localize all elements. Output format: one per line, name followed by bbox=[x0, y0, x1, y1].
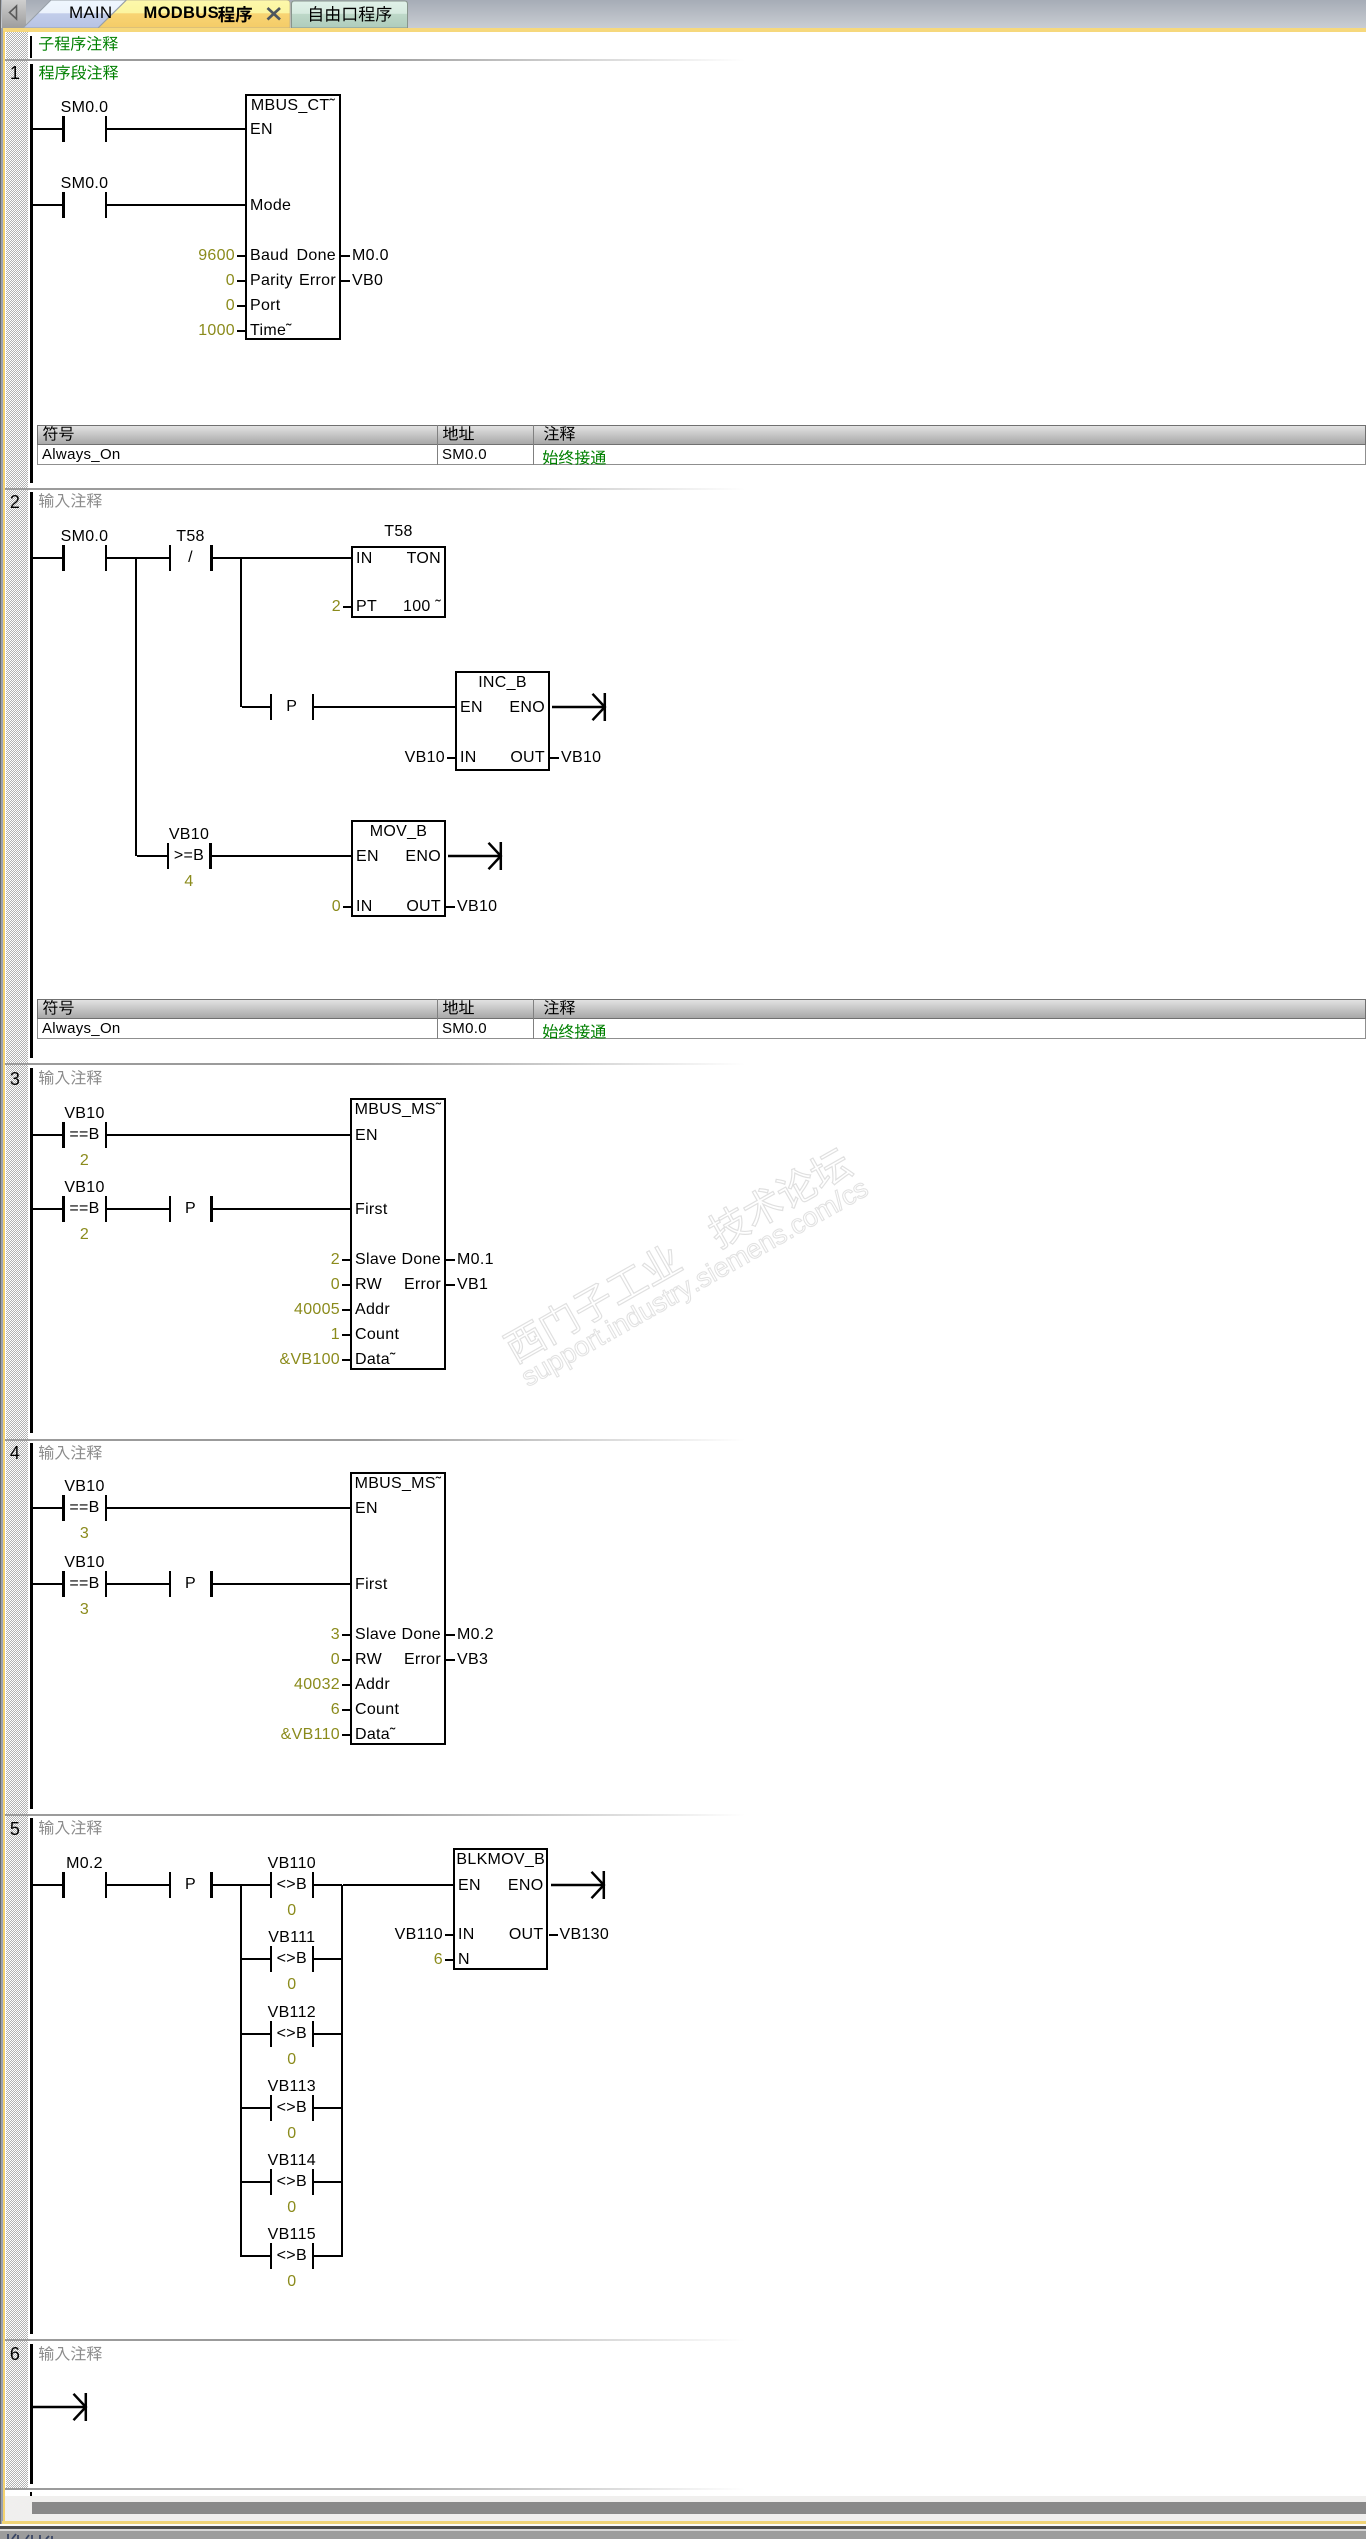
pin Addr bbox=[355, 1677, 390, 1693]
pin 100 ˜ bbox=[321, 599, 441, 615]
wire bbox=[314, 2181, 342, 2183]
contact VB10 ==B 2 (First) bbox=[0, 0, 1, 1]
wire bbox=[33, 2406, 34, 2408]
tab 自由口程序 label bbox=[310, 6, 393, 24]
network number 6 bbox=[4, 2346, 26, 2362]
network 5 left rail bbox=[30, 1818, 33, 2333]
contact P positive edge bbox=[0, 0, 1, 1]
wire bbox=[107, 1208, 169, 1210]
network 1 left rail bbox=[30, 64, 33, 483]
pin First bbox=[355, 1202, 388, 1218]
contact VB115 <>B 0 bbox=[0, 0, 1, 1]
wire bbox=[33, 557, 63, 559]
pin N bbox=[458, 1952, 470, 1968]
pin Port bbox=[250, 298, 281, 314]
close button bbox=[266, 7, 282, 21]
pin Mode bbox=[250, 198, 291, 214]
network separator bbox=[5, 488, 1366, 490]
subroutine comment marker bbox=[30, 36, 32, 58]
left yellow border bbox=[3, 31, 5, 2523]
box BLKMOV_B bbox=[453, 1848, 548, 1970]
pin Done bbox=[321, 1252, 441, 1268]
wire bbox=[314, 1884, 342, 1886]
wire bbox=[314, 1958, 342, 1960]
symbol table bbox=[37, 425, 1366, 445]
network margin hatch bbox=[6, 32, 28, 2490]
arrow (open line) bbox=[552, 691, 612, 723]
contact VB113 <>B 0 bbox=[0, 0, 1, 1]
partial next network rail tick bbox=[30, 2492, 32, 2496]
wire bbox=[107, 557, 169, 559]
pin First bbox=[355, 1577, 388, 1593]
pin ENO bbox=[321, 849, 441, 865]
network 4 left rail bbox=[30, 1443, 33, 1809]
wire bbox=[213, 1583, 351, 1585]
pin PT bbox=[356, 599, 377, 615]
wire bbox=[314, 706, 455, 708]
wire bbox=[107, 1134, 350, 1136]
wire bbox=[33, 1507, 63, 1509]
wire bbox=[107, 1884, 169, 1886]
wire bbox=[33, 1583, 63, 1585]
wire bbox=[213, 1884, 242, 1886]
wire bbox=[242, 2107, 270, 2109]
contact VB114 <>B 0 bbox=[0, 0, 1, 1]
network number 2 bbox=[4, 494, 26, 510]
wire bbox=[33, 1884, 63, 1886]
pin Baud bbox=[250, 248, 289, 264]
pin OUT bbox=[424, 1927, 544, 1943]
wire bbox=[314, 2255, 342, 2257]
pin Time˜ bbox=[250, 323, 292, 339]
watermark 西门子工业 技术论坛 support.industry.siemens.com/cs bbox=[501, 1107, 956, 1429]
empty network open line arrow bbox=[33, 2391, 93, 2423]
pin EN bbox=[355, 1501, 378, 1517]
pin RW bbox=[355, 1277, 382, 1293]
contact M0.2 bbox=[0, 0, 1, 1]
pin Addr bbox=[355, 1302, 390, 1318]
network number 5 bbox=[4, 1821, 26, 1837]
contact SM0.0 (EN rung) bbox=[0, 0, 1, 1]
contact SM0.0 (Mode rung) bbox=[0, 0, 1, 1]
wire bbox=[240, 1885, 242, 2257]
wire bbox=[212, 855, 352, 857]
tab scroll-left button bbox=[2, 0, 26, 28]
wire bbox=[33, 1134, 63, 1136]
network 5 comment placeholder bbox=[39, 1820, 104, 1837]
pin EN bbox=[356, 849, 379, 865]
pin Count bbox=[355, 1702, 399, 1718]
pin EN bbox=[460, 700, 483, 716]
network number 1 bbox=[4, 65, 26, 81]
active tab underline band bbox=[0, 28, 1366, 32]
wire bbox=[343, 1884, 453, 1886]
pin Done bbox=[216, 248, 336, 264]
wire bbox=[33, 1208, 63, 1210]
contact VB112 <>B 0 bbox=[0, 0, 1, 1]
wire bbox=[213, 557, 352, 559]
box MBUS_CTRL bbox=[245, 94, 341, 340]
tabs (MAIN, MODBUS active, 自由口程序) bbox=[0, 0, 420, 29]
arrow (open line) bbox=[551, 1869, 611, 1901]
wire bbox=[240, 558, 242, 707]
network number 4 bbox=[4, 1445, 26, 1461]
pin Done bbox=[321, 1627, 441, 1643]
wire bbox=[242, 2255, 270, 2257]
wire bbox=[314, 2107, 342, 2109]
contact SM0.0 bbox=[0, 0, 1, 1]
wire bbox=[107, 204, 245, 206]
network 2 comment placeholder bbox=[39, 493, 104, 510]
pin Slave bbox=[355, 1252, 397, 1268]
contact P positive edge bbox=[0, 0, 1, 1]
symbol comment 始终接通 bbox=[543, 450, 608, 467]
pin Error bbox=[321, 1652, 441, 1668]
pin IN bbox=[356, 899, 373, 915]
pin EN bbox=[458, 1878, 481, 1894]
symbol table bbox=[37, 999, 1366, 1019]
box MBUS_MSG 2 bbox=[350, 1472, 446, 1745]
network 1 comment 程序段注释 bbox=[39, 65, 120, 82]
network number 3 bbox=[4, 1071, 26, 1087]
tab bar background bbox=[0, 0, 1366, 28]
network 6 comment placeholder bbox=[39, 2346, 104, 2363]
pin Data˜ bbox=[355, 1727, 396, 1743]
pin IN bbox=[356, 551, 373, 567]
contact VB110 <>B 0 bbox=[0, 0, 1, 1]
network 3 left rail bbox=[30, 1068, 33, 1433]
network separator bbox=[5, 1814, 1366, 1816]
window left border bbox=[0, 0, 1, 2539]
wire bbox=[137, 855, 167, 857]
pin Error bbox=[321, 1277, 441, 1293]
box INC_B bbox=[455, 671, 550, 771]
pin IN bbox=[458, 1927, 475, 1943]
network 3 comment placeholder bbox=[39, 1070, 104, 1087]
arrow (open line) bbox=[448, 840, 508, 872]
bottom yellow border bbox=[2, 2521, 1366, 2524]
wire bbox=[213, 1208, 351, 1210]
network separator bbox=[5, 2339, 1366, 2341]
network 6 left rail bbox=[30, 2344, 33, 2484]
tab MODBUS label CJK bbox=[218, 6, 254, 25]
network 4 comment placeholder bbox=[39, 1445, 104, 1462]
wire bbox=[107, 1583, 169, 1585]
pin Error bbox=[216, 273, 336, 289]
pin OUT bbox=[321, 899, 441, 915]
wire bbox=[242, 706, 270, 708]
wire bbox=[107, 1507, 350, 1509]
pin EN bbox=[355, 1128, 378, 1144]
separator under subroutine comment bbox=[5, 59, 1366, 61]
horizontal scrollbar thumb bbox=[32, 2502, 1366, 2514]
wire bbox=[135, 558, 137, 856]
wire bbox=[242, 1958, 270, 1960]
pin TON bbox=[321, 551, 441, 567]
pin EN bbox=[250, 122, 273, 138]
pin Parity bbox=[250, 273, 293, 289]
pin ENO bbox=[424, 1878, 544, 1894]
pin Data˜ bbox=[355, 1352, 396, 1368]
contact VB10 ==B 3 (First) bbox=[0, 0, 1, 1]
wire bbox=[242, 1884, 270, 1886]
symbol comment 始终接通 bbox=[543, 1024, 608, 1041]
pin Slave bbox=[355, 1627, 397, 1643]
horizontal scrollbar track bbox=[5, 2496, 1366, 2521]
wire bbox=[314, 2033, 342, 2035]
wire bbox=[107, 128, 245, 130]
bottom cut-off text marks bbox=[6, 2532, 66, 2539]
box TON T58 bbox=[351, 546, 446, 618]
subroutine comment text 子程序注释 bbox=[39, 36, 120, 53]
wire bbox=[341, 1885, 343, 2257]
wire bbox=[33, 128, 64, 130]
pin IN bbox=[460, 750, 477, 766]
separator under network 6 bbox=[5, 2488, 1366, 2490]
window frame lines bbox=[0, 2524, 1366, 2526]
contact P positive edge bbox=[0, 0, 1, 1]
network 2 left rail bbox=[30, 492, 33, 1059]
wire bbox=[242, 2033, 270, 2035]
contact VB10 ==B 3 (EN) bbox=[0, 0, 1, 1]
network separator bbox=[5, 1439, 1366, 1441]
pin OUT bbox=[425, 750, 545, 766]
contact VB111 <>B 0 bbox=[0, 0, 1, 1]
pin ENO bbox=[425, 700, 545, 716]
contact T58 normally-closed bbox=[0, 0, 1, 1]
network separator bbox=[5, 1063, 1366, 1065]
contact P positive edge bbox=[0, 0, 1, 1]
contact VB10 >=B 4 bbox=[0, 0, 1, 1]
pin RW bbox=[355, 1652, 382, 1668]
contact VB10 ==B 2 (EN) bbox=[0, 0, 1, 1]
box MBUS_MSG 1 bbox=[350, 1098, 446, 1370]
wire bbox=[242, 2181, 270, 2183]
wire bbox=[33, 204, 64, 206]
box MOV_B bbox=[351, 820, 446, 917]
pin Count bbox=[355, 1327, 399, 1343]
